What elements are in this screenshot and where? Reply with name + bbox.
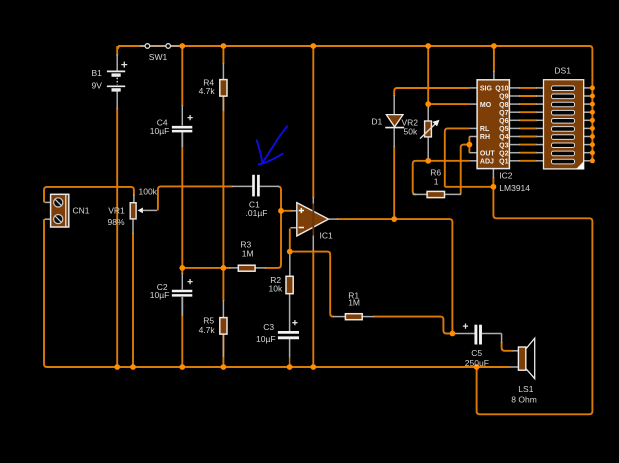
svg-text:VR1: VR1 bbox=[108, 206, 125, 216]
svg-text:C3: C3 bbox=[263, 322, 274, 332]
svg-text:10k: 10k bbox=[269, 283, 283, 293]
svg-text:Q3: Q3 bbox=[499, 142, 508, 149]
svg-text:OUT: OUT bbox=[480, 150, 496, 157]
svg-text:RL: RL bbox=[480, 126, 490, 133]
svg-text:MO: MO bbox=[480, 102, 492, 109]
svg-text:1M: 1M bbox=[242, 248, 254, 258]
svg-text:10µF: 10µF bbox=[150, 290, 170, 300]
svg-text:SIG: SIG bbox=[480, 86, 493, 93]
svg-text:R5: R5 bbox=[203, 315, 214, 325]
svg-text:SW1: SW1 bbox=[149, 52, 168, 62]
svg-text:1M: 1M bbox=[348, 298, 360, 308]
svg-text:Q8: Q8 bbox=[499, 102, 508, 109]
svg-text:.01µF: .01µF bbox=[246, 208, 268, 218]
svg-text:D1: D1 bbox=[371, 116, 382, 126]
svg-text:Q5: Q5 bbox=[499, 126, 508, 133]
svg-text:LS1: LS1 bbox=[518, 384, 533, 394]
svg-text:250uF: 250uF bbox=[465, 358, 489, 368]
svg-text:RH: RH bbox=[480, 134, 490, 141]
svg-text:Q4: Q4 bbox=[499, 134, 508, 141]
svg-text:4.7k: 4.7k bbox=[199, 86, 216, 96]
svg-text:4.7k: 4.7k bbox=[199, 325, 216, 335]
svg-text:B1: B1 bbox=[92, 68, 103, 78]
svg-text:IC1: IC1 bbox=[320, 231, 334, 241]
svg-text:ADJ: ADJ bbox=[480, 159, 494, 166]
svg-text:50k: 50k bbox=[404, 127, 418, 137]
svg-text:Q2: Q2 bbox=[499, 150, 508, 157]
svg-text:98%: 98% bbox=[108, 217, 125, 227]
svg-text:1: 1 bbox=[434, 177, 439, 187]
svg-text:C5: C5 bbox=[471, 348, 482, 358]
svg-text:Q6: Q6 bbox=[499, 118, 508, 125]
svg-text:Q7: Q7 bbox=[499, 110, 508, 117]
svg-text:10µF: 10µF bbox=[256, 334, 276, 344]
svg-text:LM3914: LM3914 bbox=[499, 183, 530, 193]
svg-text:100k: 100k bbox=[139, 187, 158, 197]
svg-text:CN1: CN1 bbox=[73, 206, 90, 216]
svg-text:10µF: 10µF bbox=[150, 126, 170, 136]
svg-text:Q10: Q10 bbox=[495, 86, 508, 93]
svg-text:DS1: DS1 bbox=[554, 66, 571, 76]
svg-text:Q9: Q9 bbox=[499, 94, 508, 101]
svg-text:IC2: IC2 bbox=[499, 171, 513, 181]
svg-text:Q1: Q1 bbox=[499, 159, 508, 166]
svg-text:9V: 9V bbox=[92, 80, 103, 90]
svg-text:8 Ohm: 8 Ohm bbox=[511, 395, 537, 405]
